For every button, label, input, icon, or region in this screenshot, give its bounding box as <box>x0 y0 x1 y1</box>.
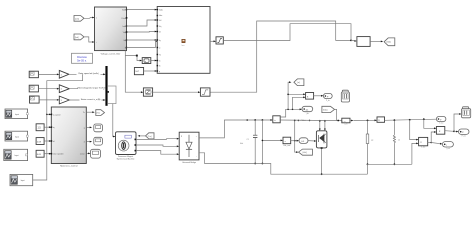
svg-text:Vabc: Vabc <box>159 10 163 12</box>
svg-text:Iq: Iq <box>159 40 161 42</box>
input block r2 <box>5 131 28 141</box>
oval display V_inv <box>436 116 446 124</box>
svg-text:q: q <box>84 127 85 129</box>
svg-text:i_ch: i_ch <box>344 124 348 126</box>
svg-text:Input: Input <box>15 154 19 157</box>
svg-text:C1: C1 <box>247 139 249 141</box>
oval block 0.5 <box>299 138 308 144</box>
svg-text:id: id <box>53 141 54 143</box>
wire filter bottom port down to measurement row <box>125 51 143 94</box>
svg-text:+: + <box>196 136 197 138</box>
svg-text:Input: Input <box>15 113 19 116</box>
wire Vdc branch down to goto tag <box>294 120 299 154</box>
input block r1 <box>5 109 28 119</box>
svg-text:[Tm]: [Tm] <box>148 136 152 138</box>
wire controller out2 to outport q <box>86 127 92 129</box>
block voltage measurement v2 <box>419 137 428 148</box>
oval display P_inv <box>459 129 470 138</box>
wire branches to sum <box>287 93 305 109</box>
sense branch to Vdc meter <box>262 120 284 164</box>
svg-text:th: th <box>159 65 161 68</box>
block saturation <box>216 37 223 44</box>
svg-text:V_out: V_out <box>421 146 426 149</box>
wire sensor upper out to ovals <box>280 108 302 117</box>
net filter-row staircase to Vab block <box>210 21 351 92</box>
svg-text:S-P: S-P <box>135 71 139 73</box>
wire junction up to product in2 <box>431 131 436 142</box>
svg-text:P_dc: P_dc <box>326 100 330 102</box>
svg-text:iq: iq <box>53 127 54 129</box>
svg-text:Iabc: Iabc <box>123 26 126 28</box>
block z^-1 unit delay (measurement row) <box>143 88 152 96</box>
svg-text:[Vdc]: [Vdc] <box>323 109 328 111</box>
capacitor branch C2 <box>366 120 373 165</box>
svg-text:Vabc: Vabc <box>122 10 126 12</box>
svg-text:Idq: Idq <box>124 40 127 42</box>
svg-text:i + -: i + - <box>343 121 347 123</box>
block S-P converter <box>134 68 143 75</box>
svg-text:z: z <box>145 61 146 63</box>
svg-text:Input: Input <box>15 135 19 138</box>
wire sensor out along DC bus <box>280 119 336 122</box>
svg-text:rotor speedm: rotor speedm <box>53 153 64 156</box>
wire product out to junction <box>445 130 455 132</box>
wire gain2 to mux <box>69 88 105 90</box>
wire z-1 to filter2 <box>153 91 201 93</box>
wire filter Idq to scope in4 <box>127 39 158 41</box>
wire c1 to controller <box>44 126 51 128</box>
block lowpass filter (measurement row) <box>200 88 210 96</box>
net saturation out staircase to Vab block <box>223 24 351 41</box>
svg-text:[Te]: [Te] <box>97 113 100 115</box>
wire 1/z to scope in6 <box>151 60 157 62</box>
goto tag w <box>294 79 304 86</box>
goto tag Te <box>96 110 105 116</box>
scope block 3 <box>462 107 471 118</box>
scope block small (two bars) <box>341 90 349 102</box>
wire scope out to saturation <box>210 40 216 42</box>
svg-text:C2: C2 <box>371 140 373 142</box>
wire gain 0.5 to IGBT gate <box>308 140 316 142</box>
junction dots on DC plus <box>246 119 263 121</box>
block Vab meter <box>357 37 370 47</box>
source block speed ref <box>29 71 38 78</box>
gain3 triangle <box>59 96 69 104</box>
wire Vdc meter to gain oval <box>291 140 299 142</box>
block RL series <box>377 117 385 122</box>
wire c2 to controller <box>44 140 51 142</box>
wire source1 to gain1 <box>38 74 59 76</box>
svg-text:5e-05 s.: 5e-05 s. <box>77 59 87 63</box>
wire DC minus up to voltmeter in2 <box>412 143 419 165</box>
wire scope column down to motor port <box>113 104 116 138</box>
svg-text:Rotor speed ref (rad/s): Rotor speed ref (rad/s) <box>78 72 98 75</box>
svg-text:p: p <box>159 71 160 73</box>
outport block sector <box>91 149 101 158</box>
input block r4 <box>10 174 33 185</box>
wire r4 up to controller junction <box>33 114 47 180</box>
block unit delay 1/z <box>142 58 151 64</box>
wire filter Vdq to scope in3 <box>126 31 157 33</box>
source block torque <box>29 85 38 92</box>
svg-text:Pulse: Pulse <box>122 18 127 20</box>
goto tag Vdc <box>299 149 313 155</box>
source block stator current <box>30 96 40 103</box>
wire bridge plus up to DC bus <box>199 119 273 138</box>
svg-text:g: g <box>181 135 182 137</box>
svg-text:Te: Te <box>159 55 161 57</box>
svg-text:Input: Input <box>21 179 25 182</box>
DC minus rail <box>199 153 412 174</box>
constant 0.05 <box>36 150 44 157</box>
svg-text:w_speed: w_speed <box>53 114 60 116</box>
svg-text:V_inv: V_inv <box>439 122 443 124</box>
block product <box>436 127 444 135</box>
wire motor B to bridge <box>136 145 179 147</box>
svg-text:L1: L1 <box>398 140 400 142</box>
svg-text:[wm]: [wm] <box>75 18 79 20</box>
svg-text:Universal Bridge: Universal Bridge <box>182 161 196 164</box>
svg-text:v: v <box>96 18 97 20</box>
wire controller out3 to outport d <box>86 141 92 143</box>
wire filter Vabc to scope in1 <box>126 9 157 19</box>
svg-text:Vdc_test: Vdc_test <box>283 144 290 147</box>
wire DC bus branch down to voltmeter in1 <box>410 120 419 141</box>
svg-text:i_dc: i_dc <box>305 113 309 115</box>
svg-text:P_inv: P_inv <box>462 136 466 138</box>
svg-text:Voltage_current_filter: Voltage_current_filter <box>101 52 121 55</box>
svg-text:Hysteresis_Control: Hysteresis_Control <box>60 165 78 168</box>
from tag F1 <box>74 16 84 22</box>
subsystem Voltage_current_filter <box>95 7 128 55</box>
wire F1 to filter input v <box>84 17 95 19</box>
wire filter Iabc to scope in2 <box>127 19 158 26</box>
scope block right of mux <box>107 86 116 104</box>
wire junction to oval I_out <box>431 143 442 145</box>
wire sum to oval Pdc <box>314 95 324 97</box>
scope subsystem (large white block) <box>157 7 210 74</box>
from tag F2 <box>74 34 84 40</box>
gain1 triangle <box>59 70 69 78</box>
oval display Pdc <box>323 93 332 101</box>
svg-text:Id: Id <box>159 32 161 34</box>
wire gain1 to mux <box>69 73 106 75</box>
label Electromagnetic torque <box>78 86 107 90</box>
wire filter w to scope in5 <box>127 41 158 48</box>
wire branch to 1/z block <box>125 55 142 62</box>
inductor branch L1 <box>393 120 400 165</box>
svg-text:Vd: Vd <box>159 20 161 22</box>
outport block d <box>94 137 103 145</box>
wire Tm to motor <box>138 135 146 137</box>
goto tag Vab <box>384 38 395 46</box>
svg-text:idc: idc <box>306 110 309 112</box>
svg-text:bus: bus <box>182 45 185 47</box>
wire DC bus branch down to product in1 <box>424 119 437 129</box>
wire branch up to goto tag w <box>288 81 291 109</box>
goto tag Vdc2 <box>322 106 335 112</box>
mux bar <box>105 66 107 106</box>
wire F2 to filter input i <box>84 37 95 43</box>
powergui block Discrete 5e-05 s <box>72 53 93 63</box>
block current sensor i+ on DC bus <box>273 116 280 123</box>
wire sensor2 out <box>350 119 377 121</box>
svg-text:Vdq: Vdq <box>123 32 126 34</box>
svg-text:Iabc: Iabc <box>159 15 162 17</box>
oval display iDC <box>302 106 313 115</box>
junction dot after smoothing block <box>367 120 369 122</box>
PMSM machine block <box>116 132 137 155</box>
IGBT chopper block <box>316 131 327 148</box>
wire controller out4 to outport sector <box>86 153 90 155</box>
constant 1.5 <box>36 124 44 131</box>
wire junction up to scope3 <box>454 113 462 131</box>
wire speed ref feedback down to controller <box>46 74 83 115</box>
wire DC plus down to IGBT <box>319 120 326 131</box>
label Rotor speed ref <box>77 72 101 76</box>
capacitor branch C1 <box>247 120 258 164</box>
constant 2.08 <box>36 138 44 145</box>
wire source2 to gain2 <box>38 88 59 90</box>
svg-text:d: d <box>84 142 85 144</box>
input block r3 <box>4 149 28 160</box>
oval display I_out <box>442 142 453 151</box>
svg-text:Electromagnetic torque Te (N.m: Electromagnetic torque Te (N.m) <box>78 87 107 90</box>
signal label on DC bus <box>298 119 311 122</box>
svg-text:sector: sector <box>80 152 85 155</box>
wire tag Vdc2 into DC bus <box>335 109 342 121</box>
wire gain3 to mux <box>69 99 105 101</box>
wire Vab to goto tag <box>370 41 383 43</box>
sum block <box>306 93 314 100</box>
Universal Bridge block <box>179 132 199 160</box>
block Vdc measurement <box>283 137 291 147</box>
block current sensor on bus 2 <box>342 118 350 125</box>
motor label <box>117 155 135 160</box>
wire RL out with junction <box>385 118 437 121</box>
wire motor C to bridge <box>136 151 179 156</box>
from tag Tm <box>146 133 155 139</box>
svg-text:Synchronous Machine: Synchronous Machine <box>117 159 135 161</box>
wire c3 to controller <box>44 153 51 155</box>
svg-text:[Vab]: [Vab] <box>387 42 392 44</box>
svg-text:Te: Te <box>83 112 85 114</box>
gain2 triangle <box>59 85 69 93</box>
label Stator current <box>80 97 102 101</box>
svg-text:Vq: Vq <box>159 26 161 28</box>
svg-text:[Iab]: [Iab] <box>75 37 79 39</box>
svg-text:I_out: I_out <box>445 147 450 150</box>
wire IGBT down to DC minus <box>321 147 323 175</box>
wire voltmeter out to junction <box>428 142 432 144</box>
wire controller out1 to Te tag <box>86 111 94 113</box>
wire S-P to scope in7 <box>144 70 158 72</box>
wire motor A to bridge <box>136 138 179 140</box>
wire source3 to gain3 <box>39 99 59 101</box>
wire junction to oval P_inv <box>454 131 459 133</box>
junction at Vab input <box>350 40 357 42</box>
svg-text:[Vdc]: [Vdc] <box>303 152 308 154</box>
outport block q <box>94 124 103 132</box>
svg-text:Discrete: Discrete <box>77 55 87 59</box>
svg-text:Vdc: Vdc <box>240 143 243 145</box>
subsystem Hysteresis_Control <box>51 107 87 168</box>
svg-text:Stator current is_a (A): Stator current is_a (A) <box>81 98 101 101</box>
